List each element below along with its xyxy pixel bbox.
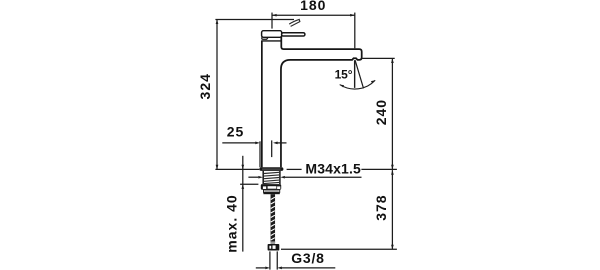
svg-text:240: 240 [373,99,389,125]
svg-text:25: 25 [227,124,245,140]
svg-text:G3/8: G3/8 [291,250,325,266]
svg-text:180: 180 [300,0,326,13]
svg-text:max. 40: max. 40 [223,194,239,252]
svg-text:M34x1.5: M34x1.5 [305,161,361,177]
svg-text:15°: 15° [335,68,353,82]
svg-text:324: 324 [197,73,213,99]
svg-text:378: 378 [373,194,389,220]
